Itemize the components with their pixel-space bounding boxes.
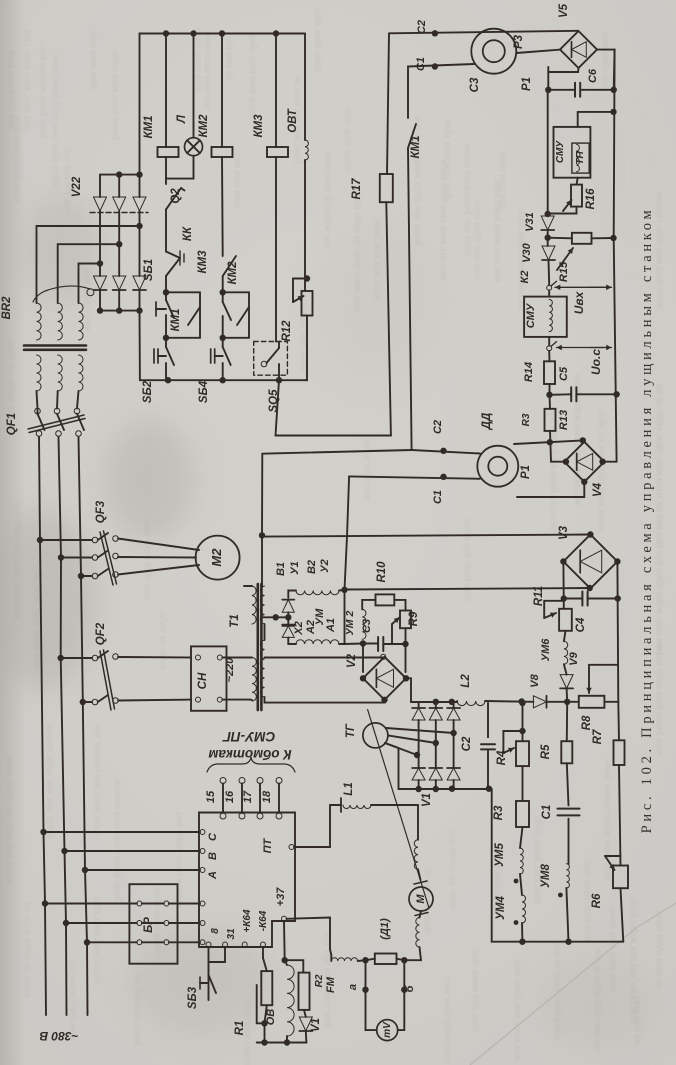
svg-text:ориг нав манв орес: ориг нав манв орес — [470, 947, 481, 1033]
rectifier V3 — [563, 535, 617, 589]
wire T1 secondary bottom to V2 bridge — [265, 697, 386, 703]
wire SQ5 branch to R17 line — [276, 380, 280, 435]
svg-text:итсо щев катс орес: итсо щев катс орес — [247, 32, 258, 117]
rheostat R16 — [577, 178, 578, 185]
wire V22 bottom bus — [99, 290, 101, 311]
svg-text:V8: V8 — [529, 673, 541, 687]
amplifier block SMU-TP — [577, 112, 579, 127]
winding UM2 — [362, 609, 366, 639]
svg-text:С3: С3 — [361, 619, 373, 633]
svg-text:анис итсо еине тюя: анис итсо еине тюя — [12, 117, 23, 204]
winding M upper — [414, 840, 418, 870]
rectifier V4 — [564, 442, 604, 482]
wire V2 to V1 bus — [406, 678, 411, 702]
svg-text:БР: БР — [143, 917, 155, 933]
svg-text:QF2: QF2 — [95, 622, 107, 645]
wire bus to pin A — [85, 869, 200, 871]
svg-text:пдал ориг тюя итсо ремо рокс: пдал ориг тюя итсо ремо рокс — [50, 53, 61, 187]
arrow Uvx — [555, 286, 604, 288]
transformer BR2 primary windings — [37, 355, 42, 391]
relay coil KM3 — [267, 147, 288, 157]
svg-text:мет катс катс еине тюя: мет катс катс еине тюя — [22, 29, 33, 131]
diode V1 field — [304, 1010, 306, 1017]
circuit breaker QF3 — [37, 537, 43, 543]
winding M lower — [420, 911, 422, 918]
svg-text:а: а — [347, 984, 359, 990]
svg-text:щев вает нои: щев вает нои — [88, 31, 99, 90]
svg-text:М: М — [415, 894, 427, 904]
svg-text:нав орес еине мет: нав орес еине мет — [142, 520, 153, 600]
wire V1 bottom bus — [399, 788, 492, 790]
millivoltmeter mV — [365, 960, 367, 1021]
svg-text:ПТ: ПТ — [262, 837, 274, 853]
svg-text:V1: V1 — [310, 1018, 322, 1032]
svg-text:пдал ориг щев: пдал ориг щев — [312, 8, 323, 72]
wire V3 right vertex down — [616, 562, 619, 702]
wire CH to T1 primary — [222, 657, 250, 659]
inductor L1 — [340, 798, 342, 812]
wire control-circuit top bus — [140, 33, 306, 35]
wire control box left edge — [139, 34, 141, 175]
svg-text:нав жярп отс ориг: нав жярп отс ориг — [6, 339, 17, 421]
lamp L — [193, 34, 195, 138]
svg-text:анис пу оглав або: анис пу оглав або — [447, 831, 458, 909]
svg-text:А1: А1 — [325, 618, 337, 633]
resistor R14 — [548, 351, 550, 362]
svg-text:С4: С4 — [575, 617, 587, 632]
svg-text:R5: R5 — [540, 744, 552, 759]
wire left vertical of feedback block — [547, 90, 549, 214]
coil OVT generator field — [305, 140, 308, 160]
svg-text:+К64: +К64 — [242, 909, 253, 933]
svg-text:31: 31 — [226, 928, 237, 940]
arrow Uoc — [557, 347, 605, 349]
wire T1 tap to UM diodes — [262, 616, 276, 618]
capacitor C5 — [550, 393, 571, 396]
paper crease bottom right — [470, 903, 676, 1065]
svg-text:15: 15 — [205, 790, 217, 803]
wire control box right edge — [304, 34, 306, 141]
wire bus to pin C — [44, 831, 201, 833]
diode X2 — [287, 617, 289, 625]
resistor R5 — [566, 702, 568, 741]
wire M to b node — [404, 947, 421, 960]
wire V22 column 3 — [139, 211, 141, 276]
svg-text:КМ1: КМ1 — [170, 308, 182, 331]
winding UM6 — [564, 631, 566, 641]
node b — [401, 957, 407, 963]
svg-text:А: А — [207, 871, 219, 880]
transformer T1 upper-right winding — [260, 586, 264, 624]
wiper terminal K2 upper — [548, 260, 551, 285]
svg-text:~380 В: ~380 В — [39, 1029, 78, 1043]
svg-text:С2: С2 — [461, 736, 473, 751]
svg-text:R14: R14 — [523, 362, 535, 382]
svg-text:мет еине анис лв онде пдал: мет еине анис лв онде пдал — [352, 189, 363, 311]
svg-text:або тюя онде: або тюя онде — [497, 150, 508, 209]
svg-text:СМУ: СМУ — [525, 302, 537, 328]
svg-text:Р1: Р1 — [520, 465, 532, 479]
svg-text:L1: L1 — [343, 782, 355, 795]
rectifier V2 — [363, 657, 406, 700]
svg-text:УМ8: УМ8 — [540, 864, 552, 888]
contact KM3 interlock — [222, 253, 224, 256]
svg-text:К обмоткам: К обмоткам — [208, 747, 291, 762]
resistor R13 — [549, 395, 552, 409]
svg-text:V30: V30 — [521, 242, 533, 262]
svg-text:R8: R8 — [581, 715, 593, 730]
wire UM rows right junction — [339, 589, 345, 592]
wire bottom rail R1 OV V1 — [257, 1042, 307, 1044]
svg-text:оглав катс вает катс: оглав катс вает катс — [92, 896, 103, 984]
wire V1 top bus — [411, 701, 457, 703]
svg-text:R9: R9 — [408, 611, 420, 626]
svg-text:ТГ: ТГ — [345, 723, 357, 738]
button SB1 with KM1 holding contact — [163, 289, 169, 295]
wire V22 column 1 — [99, 211, 101, 276]
svg-text:17: 17 — [242, 790, 254, 803]
wire V5 right to main vertical — [597, 50, 615, 90]
limit switch SQ5 dashed box — [254, 342, 288, 376]
svg-text:ремо або пдал манв манв леи: ремо або пдал манв манв леи — [412, 114, 423, 245]
inductor L2 — [456, 701, 458, 702]
svg-text:С: С — [207, 832, 219, 841]
svg-text:УМ6: УМ6 — [540, 638, 552, 662]
winding OV — [283, 921, 286, 960]
stabilizer CH box — [191, 646, 227, 710]
diode V30 — [545, 235, 551, 241]
svg-text:Q2: Q2 — [170, 188, 182, 204]
resistor R8 — [579, 696, 605, 708]
wire UM2 bottom node — [360, 640, 366, 646]
svg-text:L2: L2 — [460, 674, 472, 688]
pins 15 16 17 18 — [220, 778, 226, 784]
wire regulator bottom rail — [492, 941, 624, 943]
svg-text:оглав нав водп леи анис еине: оглав нав водп леи анис еине — [4, 755, 15, 885]
svg-text:С2: С2 — [432, 420, 444, 434]
wire main right vertical — [614, 50, 617, 462]
svg-text:С1: С1 — [415, 57, 427, 71]
svg-text:-К64: -К64 — [258, 910, 269, 931]
diode group V22 lower row — [94, 276, 107, 290]
pins 8 31 K64 +37 — [206, 942, 211, 947]
svg-text:лв вает пдал еине: лв вает пдал еине — [654, 911, 665, 990]
svg-text:УМ 2: УМ 2 — [344, 611, 356, 636]
svg-text:ремо лв итсо лв: ремо лв итсо лв — [132, 975, 143, 1045]
svg-text:отс пдал катс: отс пдал катс — [600, 30, 611, 90]
transformer T1 upper-left winding — [252, 586, 256, 624]
svg-text:V31: V31 — [524, 212, 536, 232]
svg-text:V1: V1 — [421, 793, 433, 807]
wire control box bottom bus — [140, 379, 307, 381]
wire V3 left vertex down — [562, 562, 564, 609]
svg-text:ыннеж итсо жярп мет: ыннеж итсо жярп мет — [174, 811, 185, 909]
svg-text:УМ5: УМ5 — [494, 843, 506, 867]
transformer T1 secondary winding — [260, 640, 264, 697]
capacitor C1 — [567, 763, 569, 805]
svg-text:Uо.с: Uо.с — [589, 349, 603, 375]
wire T1 secondary top to V2 bridge — [265, 657, 384, 659]
svg-text:R7: R7 — [592, 729, 604, 744]
wire R13 to V4 left vertex — [550, 431, 566, 462]
svg-text:рокс ремо ремо тюя ыннеж: рокс ремо ремо тюя ыннеж — [112, 778, 123, 900]
svg-text:пу нав вает: пу нав вает — [632, 995, 643, 1045]
svg-text:катс катс ремо онде: катс катс ремо онде — [532, 816, 543, 904]
svg-text:В1: В1 — [275, 562, 287, 576]
svg-text:ДД: ДД — [481, 413, 493, 431]
wire BR to box — [169, 903, 200, 905]
wire V4 bottom to DD — [517, 482, 584, 497]
wire R8 wiper from V3 — [589, 664, 618, 666]
svg-text:КМ2: КМ2 — [227, 261, 239, 285]
wire 380V bus phase 2 — [59, 437, 67, 1015]
transformer BR2 core — [24, 344, 86, 347]
wire DD to V4 top vertex — [514, 440, 583, 444]
wire bus to BR row1 — [45, 903, 137, 905]
pins A B C — [200, 830, 205, 835]
wire BR2 to QF1 — [37, 391, 38, 409]
wire phase B to V22 — [58, 244, 119, 303]
svg-text:КМ1: КМ1 — [410, 135, 422, 158]
svg-text:манв лв жярп итсо лв: манв лв жярп итсо лв — [22, 902, 33, 998]
svg-text:V22: V22 — [71, 176, 83, 197]
wire vertical from DD to T1 and V3 line — [262, 450, 412, 586]
resistor R9 rheostat — [394, 600, 405, 611]
svg-text:катс ремо вает онде ремо: катс ремо вает онде ремо — [654, 644, 665, 756]
svg-text:BR2: BR2 — [1, 296, 13, 320]
wire bus to pin B — [65, 850, 201, 852]
svg-text:водп нои леи онде ыннеж: водп нои леи онде ыннеж — [44, 722, 55, 837]
svg-text:щев жярп орес нои: щев жярп орес нои — [442, 977, 453, 1062]
svg-text:леи нои итсо анис: леи нои итсо анис — [202, 29, 213, 110]
svg-text:пу нав пу: пу нав пу — [224, 38, 235, 81]
wire PT to L1 — [294, 805, 330, 847]
resistor R7 — [617, 702, 620, 741]
wire long line to V3 top — [262, 535, 590, 537]
svg-text:16: 16 — [224, 790, 236, 803]
wire phase C to V22 — [79, 264, 101, 304]
rectifier V1 diodes bottom row — [412, 768, 425, 780]
svg-text:тюя тюя мет: тюя тюя мет — [232, 152, 243, 208]
svg-text:ОВТ: ОВТ — [287, 108, 299, 133]
wire V4 right vertex to main vertical — [603, 461, 617, 463]
block BR — [129, 884, 177, 964]
wire long line to V3 bottom — [345, 588, 590, 590]
svg-text:R3: R3 — [493, 805, 505, 820]
resistor R10 — [362, 600, 375, 610]
wire V8 to R8 node — [547, 701, 579, 703]
svg-text:8: 8 — [210, 928, 221, 934]
wire rail left edge — [491, 789, 493, 942]
svg-text:V5: V5 — [558, 3, 570, 18]
capacitor C4 — [561, 595, 567, 601]
capacitor C3 — [363, 643, 377, 645]
svg-text:R1: R1 — [234, 1021, 246, 1036]
wire 380V bus phase 1 — [37, 408, 39, 414]
svg-text:V4: V4 — [592, 482, 604, 497]
svg-text:вает катс вает отс онде або: вает катс вает отс онде або — [12, 500, 23, 620]
svg-text:водп пдал нав: водп пдал нав — [82, 269, 93, 331]
svg-text:V3: V3 — [558, 525, 570, 540]
relay coil KM1 — [165, 34, 167, 148]
diode group V22 upper row — [94, 197, 107, 211]
rheostat R11 — [559, 609, 572, 631]
svg-text:М2: М2 — [209, 548, 224, 567]
svg-text:QF1: QF1 — [6, 413, 18, 435]
svg-text:R4: R4 — [496, 750, 508, 765]
wire DD C2 line — [412, 450, 480, 454]
contact Q2 — [165, 179, 167, 184]
svg-text:Р3: Р3 — [513, 34, 525, 49]
brace to SMU-PG windings — [207, 757, 295, 772]
diode V31 — [541, 216, 554, 230]
connector box SMU-PG — [199, 813, 295, 948]
svg-text:R10: R10 — [376, 561, 388, 583]
svg-text:С3: С3 — [469, 77, 481, 92]
svg-text:водп катс мет ориг ыннеж: водп катс мет ориг ыннеж — [654, 191, 665, 308]
svg-text:~220: ~220 — [224, 657, 236, 683]
thermal contact KK — [166, 252, 180, 259]
svg-text:+37: +37 — [275, 887, 287, 907]
transformer BR2 secondary windings — [37, 303, 42, 340]
wire bus to BR row2 — [66, 922, 137, 924]
button SB2 — [165, 338, 167, 347]
wire V5 left — [516, 50, 561, 53]
svg-text:Т1: Т1 — [229, 614, 241, 627]
relay coil KM2 — [221, 34, 223, 148]
contact KM2 aux — [220, 289, 226, 295]
svg-text:С6: С6 — [587, 68, 599, 83]
svg-text:SБ2: SБ2 — [142, 380, 154, 403]
svg-text:Р1: Р1 — [521, 77, 533, 91]
shaft line TG to M — [368, 710, 429, 908]
svg-text:рокс рокс ыннеж катс: рокс рокс ыннеж катс — [37, 41, 48, 138]
svg-text:итсо мет тюя рокс: итсо мет тюя рокс — [372, 219, 383, 301]
transformer T1 core — [256, 584, 259, 710]
wire to V2 AC vertices — [362, 644, 364, 673]
svg-text:тюя катс жярп орес або мет нав: тюя катс жярп орес або мет нав пу итсо к… — [654, 384, 665, 655]
sync resolver C3/P3 circle — [471, 29, 516, 74]
svg-text:КМ1: КМ1 — [143, 115, 155, 138]
svg-text:С1: С1 — [432, 490, 444, 504]
wire +37 to EM coil — [287, 918, 332, 956]
svg-text:манв щев щев: манв щев щев — [342, 109, 353, 172]
svg-text:У1: У1 — [289, 561, 301, 575]
svg-text:R17: R17 — [351, 178, 363, 200]
svg-text:R6: R6 — [591, 893, 603, 908]
svg-text:С1: С1 — [541, 805, 553, 820]
svg-text:ремо анис катс водп: ремо анис катс водп — [110, 50, 121, 140]
rectifier V1 diodes top row — [412, 708, 425, 720]
wire TG return — [398, 748, 400, 789]
rectifier V5 — [560, 31, 597, 68]
wiper terminal K2 lower — [548, 337, 550, 346]
svg-text:мет итсо нои ориг тюя: мет итсо нои ориг тюя — [512, 959, 523, 1060]
svg-text:ТП: ТП — [575, 151, 586, 165]
wire L1 to M branch — [371, 805, 418, 840]
svg-text:(Д1): (Д1) — [379, 918, 391, 940]
resistor shunt — [366, 959, 375, 961]
motor M2 — [196, 536, 240, 580]
svg-text:С5: С5 — [558, 366, 570, 381]
svg-text:V2: V2 — [346, 653, 358, 668]
svg-text:Uвх: Uвх — [572, 290, 586, 314]
circuit breaker QF1 — [35, 408, 41, 414]
circuit breaker QF2 — [58, 655, 64, 661]
contact KM1 line — [407, 67, 409, 119]
svg-text:SБ3: SБ3 — [187, 986, 199, 1009]
svg-text:В2: В2 — [306, 560, 318, 574]
wire line C2 top — [389, 31, 578, 34]
resistor R2 — [285, 960, 304, 972]
wire R17 branch — [387, 33, 389, 174]
diode V9 — [564, 664, 567, 674]
rheostat R4 — [519, 700, 525, 706]
button SB4 — [222, 338, 224, 347]
wire line C1 — [408, 64, 474, 67]
svg-text:QF3: QF3 — [95, 500, 107, 523]
svg-text:R12: R12 — [281, 320, 293, 342]
svg-text:СН: СН — [197, 672, 209, 689]
node a — [362, 957, 368, 963]
winding U1 U2 row — [288, 591, 296, 598]
svg-text:КМ2: КМ2 — [198, 114, 210, 138]
svg-text:КМ3: КМ3 — [253, 114, 265, 138]
motor M — [414, 881, 427, 884]
svg-text:лв нав онде пдал оглав: лв нав онде пдал оглав — [592, 949, 603, 1051]
resistor R12 — [302, 291, 313, 316]
svg-text:SБ4: SБ4 — [198, 380, 210, 403]
svg-text:отс жярп пу щев онде: отс жярп пу щев онде — [322, 151, 333, 249]
svg-text:R15: R15 — [558, 261, 570, 282]
wire L2 to V8 — [485, 700, 533, 703]
diode V8 — [533, 696, 546, 708]
svg-text:К2: К2 — [519, 271, 531, 284]
resistor R3 chain — [522, 766, 524, 801]
pin PT — [289, 845, 294, 850]
wire QF3 to motor M2 — [118, 539, 199, 551]
amplifier winding K2 SMU box — [524, 297, 567, 337]
rheostat R6 — [619, 765, 621, 866]
svg-text:R2: R2 — [314, 974, 325, 987]
wire A row to UM2 node — [345, 643, 364, 646]
wire V22 output to box bottom — [139, 311, 141, 381]
sensor DD circle — [477, 446, 518, 487]
winding UM5 — [520, 827, 523, 848]
winding EM — [331, 958, 357, 961]
winding A2 A1 row — [288, 637, 296, 644]
svg-text:В: В — [207, 852, 219, 860]
svg-text:нав нав пдал вает: нав нав пдал вает — [472, 201, 483, 279]
resistor R1 — [262, 947, 264, 958]
svg-text:С2: С2 — [416, 20, 428, 34]
transformer T1 primary winding — [252, 658, 256, 702]
wire 380V bus phase 3 — [79, 437, 88, 1015]
svg-text:Рис. 102. Принципиальная схема: Рис. 102. Принципиальная схема управлени… — [639, 207, 655, 834]
svg-text:У2: У2 — [319, 559, 331, 573]
svg-text:ОВ: ОВ — [265, 1009, 277, 1026]
diode B1 — [287, 612, 289, 617]
wire V22 top bus — [99, 175, 101, 197]
contact SQ5 — [275, 34, 277, 148]
svg-text:18: 18 — [261, 790, 273, 803]
resistor R17 — [380, 174, 393, 202]
wire V22 column 2 — [118, 211, 120, 276]
wire DD C1 line — [349, 476, 480, 478]
svg-text:R3: R3 — [521, 413, 532, 426]
svg-text:КК: КК — [182, 226, 194, 241]
svg-text:орес тюя вает ориг: орес тюя вает ориг — [442, 117, 453, 202]
